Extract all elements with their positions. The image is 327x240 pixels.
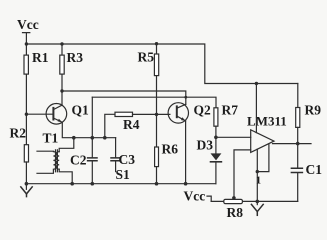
wire R1 to base node <box>25 74 27 145</box>
transformer T1 <box>37 131 74 184</box>
wire collector bus to Q2 <box>62 91 186 104</box>
secondary bottom lead <box>59 169 72 184</box>
resistor R3 <box>60 44 83 74</box>
node C2-rail <box>91 182 95 186</box>
svg-text:R7: R7 <box>222 103 239 118</box>
ground left <box>21 182 32 197</box>
node R4/R5/R6/base <box>155 113 158 116</box>
node emitter-R4 <box>103 136 107 140</box>
transistor Q2 <box>168 103 211 124</box>
capacitor C1 <box>291 162 322 201</box>
resistor R1 <box>24 44 49 74</box>
diode D3 <box>197 138 222 184</box>
wire Q2 emitter down <box>185 121 187 184</box>
node rail-R5 <box>155 42 158 45</box>
svg-text:S1: S1 <box>116 167 131 182</box>
pin output <box>273 143 312 145</box>
svg-text:Vcc: Vcc <box>17 17 39 32</box>
svg-text:T1: T1 <box>43 131 59 146</box>
svg-text:R8: R8 <box>227 205 244 220</box>
node rail-R1 <box>25 42 28 45</box>
resistor R4 <box>105 112 170 138</box>
ground right <box>251 200 263 216</box>
svg-text:C1: C1 <box>306 162 323 177</box>
wire R3 to Q1 collector <box>61 74 63 105</box>
svg-text:R5: R5 <box>138 50 155 65</box>
wire bottom rail <box>26 183 216 185</box>
secondary top lead <box>59 138 74 152</box>
potentiometer R8 <box>224 199 243 220</box>
Vcc supply symbol top-left <box>17 17 39 44</box>
capacitor C2 <box>70 97 97 184</box>
resistor R9 <box>296 84 322 128</box>
resistor R7 <box>214 103 238 127</box>
svg-text:C3: C3 <box>119 152 136 167</box>
svg-text:Q2: Q2 <box>194 103 212 118</box>
wire R7 to D3 <box>215 126 217 153</box>
wire R2 to bottom rail <box>25 162 27 184</box>
resistor R5 <box>138 44 159 76</box>
node comparator + input <box>214 136 218 140</box>
wire top Vcc rail <box>26 44 297 84</box>
svg-text:R9: R9 <box>305 103 322 118</box>
pin 1 / gnd loop <box>257 144 269 172</box>
node rail-R3 <box>60 42 63 45</box>
svg-text:1: 1 <box>256 176 261 187</box>
wire Q1 emitter line <box>62 122 115 137</box>
wire R9 to output node <box>297 127 299 167</box>
svg-text:R3: R3 <box>67 50 84 65</box>
svg-text:R6: R6 <box>162 142 179 157</box>
node collector tee <box>60 89 63 92</box>
svg-text:C2: C2 <box>70 153 87 168</box>
wire bottom bias line <box>211 200 298 202</box>
svg-text:D3: D3 <box>197 138 214 153</box>
node output-R9-C1 <box>296 142 300 146</box>
left winding with leads <box>37 151 56 173</box>
svg-text:Vcc: Vcc <box>184 189 206 204</box>
op-amp U1 LM311 <box>216 84 311 202</box>
node emitter-T1 <box>72 136 76 140</box>
wire R6 to bottom rail <box>156 167 158 184</box>
right winding <box>56 152 59 170</box>
node Q1 base <box>25 113 28 116</box>
transistor Q1 <box>26 103 89 125</box>
node Q2 emitter-rail <box>184 182 188 186</box>
svg-text:R1: R1 <box>32 50 49 65</box>
wire R5 down to Q2 base node <box>156 76 158 147</box>
node rail-LM311 V+ <box>255 82 258 85</box>
svg-text:R4: R4 <box>123 117 140 132</box>
node R8 wiper <box>232 196 236 200</box>
capacitor C3 <box>111 138 135 172</box>
pin + input <box>216 136 251 138</box>
wire C2 top to R7 top <box>92 97 216 108</box>
Vcc supply symbol bottom <box>184 189 212 204</box>
pin - input <box>234 150 251 200</box>
node R6-rail <box>155 182 159 186</box>
svg-text:Q1: Q1 <box>72 103 90 118</box>
svg-text:R2: R2 <box>10 126 27 141</box>
resistor R2 <box>10 126 29 163</box>
pin V+ <box>255 84 257 133</box>
svg-text:LM311: LM311 <box>247 114 287 129</box>
node emitter-C2 <box>91 136 95 140</box>
resistor R6 <box>155 142 179 167</box>
core <box>56 150 58 172</box>
node collector crossing <box>184 96 187 99</box>
node T1-rail <box>70 182 74 186</box>
